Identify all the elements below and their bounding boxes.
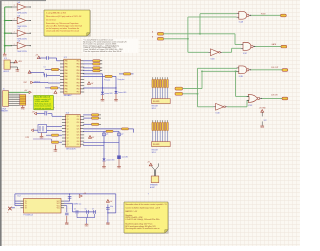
svg-text:jp2: jp2 [120,133,123,135]
svg-text:PD0: PD0 [77,92,80,94]
svg-text:PB0: PB0 [65,82,68,84]
svg-text:PB0: PB0 [65,70,68,72]
svg-text:Q1: Q1 [67,122,69,124]
svg-text:PD0: PD0 [77,76,80,78]
svg-text:IC4C: IC4C [243,53,248,55]
svg-text:PD0: PD0 [77,70,80,72]
svg-text:C1: C1 [44,66,46,68]
svg-text:RST: RST [24,82,27,84]
svg-text:RN-SIP8: RN-SIP8 [153,144,159,146]
svg-text:Receiving othe switch: 4x read: Receiving othe switch: 4x read limit to … [125,227,159,230]
svg-text:TX: TX [25,203,27,205]
svg-text:2: 2 [14,19,15,21]
svg-text:C6: C6 [85,208,87,210]
svg-text:Counter 5_Buffers 4Q-Bit outpu: Counter 5_Buffers 4Q-Bit output Clock +-… [125,206,160,209]
svg-text:CLK: CLK [77,141,80,143]
svg-text:PB0: PB0 [65,79,68,81]
svg-text:74HC125N: 74HC125N [17,12,27,14]
svg-text:J1: J1 [3,89,5,91]
svg-text:Q1: Q1 [67,138,69,140]
svg-text:74HC125N: 74HC125N [17,51,27,53]
svg-text:CLK: CLK [77,132,80,134]
svg-text:16MHz osc: 16MHz osc [73,203,81,205]
svg-text:FT232RL-B: FT232RL-B [24,214,34,216]
svg-text:Q1: Q1 [67,135,69,137]
svg-text:TX: TX [25,201,27,203]
svg-text:+5V: +5V [91,137,94,139]
svg-text:circuits and other Transmissio: circuits and other Transmission the circ… [46,29,79,32]
svg-text:+5V: +5V [147,161,150,163]
svg-text:+5V: +5V [110,201,113,203]
svg-text:Do not force:: Do not force: [46,18,57,21]
svg-text:PD0: PD0 [77,85,80,87]
svg-text:PB0: PB0 [65,73,68,75]
svg-text:Than the expansion offered for: Than the expansion offered for other tha… [83,50,121,53]
svg-text:TX: TX [25,208,27,210]
svg-text:CLK OUT: CLK OUT [271,67,278,69]
svg-text:Q1: Q1 [67,116,69,118]
svg-text:CLK: CLK [77,119,80,121]
svg-text:74HC4040N: 74HC4040N [66,148,77,150]
svg-text:+5V: +5V [91,83,94,85]
svg-text:PB0: PB0 [65,76,68,78]
svg-text:IC4D: IC4D [216,112,221,114]
svg-text:Q1: Q1 [67,125,69,127]
svg-text:FOUT: FOUT [261,13,266,15]
svg-text:PD0: PD0 [77,67,80,69]
svg-text:power LED: power LED [107,160,116,162]
svg-text:4.7u&F 22 uhF L-Bat(s), 100 ms: 4.7u&F 22 uhF L-Bat(s), 100 msof 470u 4V… [125,218,159,221]
svg-text:MAX232 C +5V: MAX232 C +5V [125,210,138,213]
svg-text:CLK DIV: CLK DIV [271,94,278,96]
svg-text:Remember when of the counter c: Remember when of the counter counter is … [125,203,167,206]
svg-text:CLK: CLK [77,135,80,137]
svg-text:PB0: PB0 [65,85,68,87]
svg-text:LE33CZ: LE33CZ [3,71,9,73]
svg-text:RN2 4K7: RN2 4K7 [152,150,159,152]
svg-text:PD0: PD0 [77,61,80,63]
svg-text:TX: TX [25,205,27,207]
svg-text:RN1 4K7: RN1 4K7 [152,106,159,108]
svg-text:2: 2 [14,31,15,33]
svg-text:PD0: PD0 [77,64,80,66]
svg-text:CLK: CLK [77,144,80,146]
svg-text:Q1: Q1 [67,119,69,121]
svg-text:PB0: PB0 [65,67,68,69]
svg-text:2: 2 [14,5,15,7]
svg-text:100n: 100n [110,206,114,208]
svg-text:Q1: Q1 [67,141,69,143]
svg-text:IC5: IC5 [4,58,7,60]
svg-text:C7: C7 [92,208,94,210]
svg-text:CLK: CLK [77,128,80,130]
svg-text:PD0: PD0 [77,89,80,91]
svg-text:MEGA8-P: MEGA8-P [64,94,73,97]
svg-text:aux LED: aux LED [122,157,129,159]
svg-text:Is using MMC/SD at 3V3:: Is using MMC/SD at 3V3: [46,11,67,14]
svg-text:+3V3: +3V3 [18,61,22,63]
svg-text:CLK: CLK [77,122,80,124]
svg-text:SIP-8: SIP-8 [152,108,156,110]
svg-text:Comm LED: Comm LED [118,92,127,94]
svg-text:jp1: jp1 [105,133,108,135]
svg-text:PD0: PD0 [77,82,80,84]
svg-text:RN-SIP8: RN-SIP8 [153,101,159,103]
svg-text:T: T [148,193,149,195]
svg-text:PB0: PB0 [65,61,68,63]
svg-text:When data out (DO pin) card to: When data out (DO pin) card to uC 3V3 - … [46,15,82,18]
svg-text:Q1: Q1 [67,144,69,146]
svg-text:CLK: CLK [77,138,80,140]
svg-text:B: B [152,37,153,39]
svg-text:2: 2 [14,44,15,46]
svg-text:CLK: CLK [77,125,80,127]
svg-text:PD0: PD0 [77,79,80,81]
svg-text:PD0: PD0 [77,73,80,75]
svg-text:+5V GND: +5V GND [259,107,267,109]
svg-text:SIP-8: SIP-8 [152,152,156,154]
svg-text:prescale sys internal: prescale sys internal [35,107,52,110]
svg-text:C5: C5 [74,208,76,210]
svg-text:sensor LED: sensor LED [104,93,113,95]
svg-text:PB0: PB0 [65,64,68,66]
svg-text:CLK: CLK [77,116,80,118]
svg-text:Q1: Q1 [67,128,69,130]
svg-text:Q1: Q1 [67,132,69,134]
svg-text:HEADER: HEADER [1,110,9,113]
svg-text:PB0: PB0 [65,89,68,91]
svg-text:PB0: PB0 [65,92,68,94]
svg-text:Freq plan: Freq plan [118,79,125,81]
